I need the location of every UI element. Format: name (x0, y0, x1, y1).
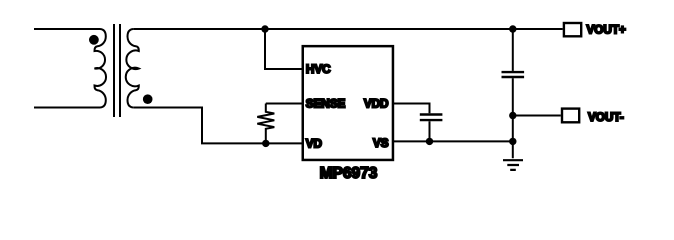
terminal VOUT+ (564, 23, 581, 36)
wire: top net from secondary to VOUT+ (133, 28, 562, 30)
op-amp / IC U1 MP6973 body (303, 46, 393, 160)
node: resistor / VD wire junction (262, 140, 269, 147)
node: VOUT- branch junction (509, 112, 516, 119)
capacitor C2 (output) (502, 72, 525, 77)
capacitor C1 (VDD bypass) (420, 115, 443, 121)
ground (503, 160, 523, 170)
wire: primary top lead (34, 28, 100, 30)
node: VS / output branch junction (509, 138, 516, 145)
svg-text:VD: VD (306, 137, 322, 150)
svg-text:VOUT+: VOUT+ (587, 24, 626, 37)
svg-text:MP6973: MP6973 (320, 165, 378, 182)
transformer secondary phase dot (143, 94, 153, 104)
wire: bypass capacitor bottom to VS net (429, 121, 431, 141)
wire: VOUT- branch (513, 115, 561, 117)
svg-text:VDD: VDD (364, 98, 389, 111)
transformer secondary winding (126, 29, 139, 108)
wire: output capacitor top lead (512, 29, 514, 71)
wire: secondary bottom to VD pin (133, 108, 302, 144)
node: top net / output capacitor junction (509, 25, 516, 32)
wire: output capacitor bottom lead (512, 78, 514, 158)
wire: VS net (393, 140, 513, 142)
node: top net / HVC branch junction (261, 25, 268, 32)
svg-text:SENSE: SENSE (306, 98, 346, 111)
transformer primary winding (94, 29, 106, 108)
transformer primary phase dot (89, 35, 99, 45)
svg-text:VOUT-: VOUT- (588, 111, 624, 124)
wire: primary bottom lead (34, 107, 100, 109)
wire: SENSE pin to resistor top (266, 103, 303, 105)
transformer core (114, 24, 120, 117)
svg-text:HVC: HVC (306, 63, 331, 76)
node: bypass cap / VS junction (426, 138, 433, 145)
terminal VOUT- (562, 109, 579, 123)
svg-text:VS: VS (373, 137, 389, 150)
wire: HVC branch (265, 29, 303, 69)
resistor R1 (sense resistor) (257, 104, 274, 144)
wire: VDD pin to bypass capacitor (393, 104, 430, 114)
